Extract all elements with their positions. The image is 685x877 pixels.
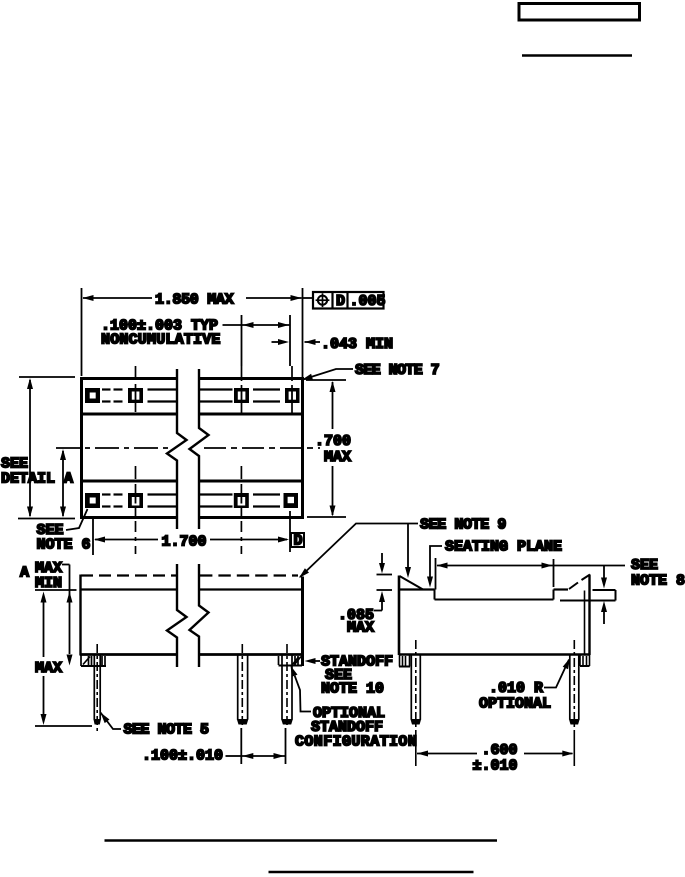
title block box <box>519 4 640 21</box>
svg-text:.010 R: .010 R <box>489 680 543 697</box>
pin centerline bottom row 3 <box>240 466 242 554</box>
svg-text:NONCUMULATIVE: NONCUMULATIVE <box>101 332 221 349</box>
dimension 1.850 MAX <box>82 288 303 377</box>
side view left standoff <box>399 655 410 667</box>
top view body outline <box>80 377 304 519</box>
side view right standoff <box>580 655 590 666</box>
top view row separator upper <box>82 413 176 416</box>
side view left edge <box>398 576 401 656</box>
top view break line right <box>190 369 209 529</box>
svg-text:A: A <box>64 471 73 488</box>
top view horizontal centerline <box>56 447 320 449</box>
svg-text:.100±.010: .100±.010 <box>142 748 223 765</box>
front view top hidden (MAX) line dashed <box>81 574 298 576</box>
svg-text:NOTE 10: NOTE 10 <box>321 681 384 698</box>
bottom rule 1 <box>105 839 498 841</box>
pin square bottom row 4 <box>284 493 299 508</box>
pin square top row 3 <box>234 388 249 403</box>
side view top-left chamfer <box>400 576 424 590</box>
front view right standoff with hatching <box>279 656 303 666</box>
feature control frame position D .005 <box>303 297 314 299</box>
pin centerline top row 2 <box>135 366 137 412</box>
svg-text:SEE NOTE 5: SEE NOTE 5 <box>124 722 210 739</box>
pin square top row 2 <box>128 388 143 403</box>
svg-text:±.010: ±.010 <box>473 758 518 775</box>
dimension .700 MAX <box>306 380 346 517</box>
side view top-right chamfer <box>569 583 578 590</box>
pin centerline bottom row 2 <box>135 466 137 554</box>
svg-text:.005: .005 <box>350 293 386 310</box>
contact row hidden dashes lower row <box>102 495 280 507</box>
pin centerline top row 3 <box>241 366 243 413</box>
dimension .085 MAX <box>374 553 392 611</box>
title underline <box>522 54 632 56</box>
side view right ear edge <box>588 575 590 656</box>
top view break line left <box>167 369 187 529</box>
pin square bottom row 2 <box>128 493 143 508</box>
front view pin 3 <box>282 655 292 720</box>
front view left edge <box>79 575 81 656</box>
svg-text:D: D <box>294 533 303 550</box>
svg-text:MAX: MAX <box>324 449 351 466</box>
side view right lip <box>560 590 616 601</box>
svg-text:SEE NOTE 7: SEE NOTE 7 <box>355 362 439 379</box>
svg-text:DETAIL: DETAIL <box>1 471 55 488</box>
top view row separator lower <box>82 480 176 483</box>
side view bottom edge <box>399 653 590 656</box>
bottom rule 2 <box>269 871 474 874</box>
front view right edge <box>301 577 304 667</box>
leader STANDOFF SEE NOTE 10 <box>305 658 316 664</box>
front view body-height dimension A <box>62 564 70 566</box>
svg-text:OPTIONAL: OPTIONAL <box>479 696 551 713</box>
svg-text:CONFIGURATION: CONFIGURATION <box>295 734 417 751</box>
front view pin-length dimension (lower MAX) <box>35 602 92 726</box>
side view channel recess <box>435 590 554 600</box>
pin square top row 1 <box>85 388 100 403</box>
svg-text:A: A <box>20 565 29 582</box>
dimension .043 MIN <box>272 341 321 343</box>
side view pin right <box>570 655 579 720</box>
top view half-height dimension <box>62 451 64 516</box>
svg-text:MAX: MAX <box>35 660 62 677</box>
svg-text:SEATING PLANE: SEATING PLANE <box>445 539 562 556</box>
svg-text:1.850 MAX: 1.850 MAX <box>155 292 234 309</box>
svg-text:.043 MIN: .043 MIN <box>321 336 393 353</box>
pin square bottom row 1 <box>85 493 100 508</box>
front view pin 1 <box>94 655 100 720</box>
front view top solid (MIN) line <box>80 588 176 590</box>
svg-text:.600: .600 <box>482 742 518 759</box>
svg-text:.700: .700 <box>315 433 351 450</box>
side view right inner wall line <box>584 591 586 655</box>
svg-text:D: D <box>336 293 345 310</box>
side view right shoulder <box>554 588 569 590</box>
dimension .600 +/- .010 <box>417 753 573 755</box>
pin square bottom row 3 <box>234 493 249 508</box>
svg-text:1.700: 1.700 <box>162 534 207 551</box>
front view top line extension at left <box>35 589 77 591</box>
svg-text:MAX: MAX <box>347 620 374 637</box>
dimension 1.700 <box>93 511 290 555</box>
note 8 lip arrows <box>603 566 605 578</box>
svg-text:NOTE 6: NOTE 6 <box>37 537 91 554</box>
contact row hidden dashes upper row <box>102 390 280 402</box>
svg-text:SEE: SEE <box>631 557 658 574</box>
side view pin left <box>411 655 420 720</box>
svg-text:SEE NOTE 9: SEE NOTE 9 <box>420 517 506 534</box>
svg-text:NOTE 8: NOTE 8 <box>631 573 685 590</box>
leader OPTIONAL STANDOFF CONFIGURATION <box>291 666 298 677</box>
side view left shoulder <box>399 588 435 590</box>
pin square top row 4 <box>285 388 300 403</box>
top view left overall dimension <box>18 377 75 519</box>
side view channel width dimension with note 8 leader line <box>436 558 626 590</box>
front view bottom edge <box>80 653 177 656</box>
datum symbol D <box>291 533 304 547</box>
front view break line left <box>167 564 187 667</box>
front view left standoff with hatching <box>81 655 106 666</box>
front view pin 2 <box>238 655 248 720</box>
pin centerline top row 4 <box>291 366 293 413</box>
front view break line right <box>190 564 209 667</box>
